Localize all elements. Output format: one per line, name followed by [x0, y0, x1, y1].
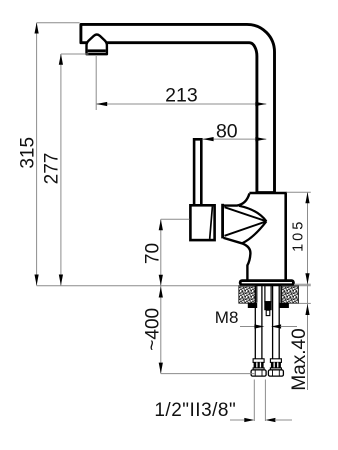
- joint bar: [221, 204, 224, 239]
- svg-text:1/2"II3/8": 1/2"II3/8": [154, 400, 236, 421]
- cone top edge: [224, 193, 250, 205]
- dim 400 ext bottom: [161, 373, 255, 375]
- countertop hatch right: [282, 286, 299, 304]
- dim 105 ext bottom: [295, 283, 311, 285]
- countertop hatch left: [239, 286, 256, 304]
- hose left: [254, 286, 256, 359]
- svg-text:105: 105: [290, 219, 306, 252]
- aerator: [87, 35, 107, 55]
- svg-text:M8: M8: [215, 308, 239, 327]
- handle body: [190, 205, 214, 240]
- base flange: [240, 281, 293, 285]
- dim 105 ext top: [286, 191, 310, 193]
- lever bar: [194, 139, 201, 205]
- handle inner slant: [210, 207, 213, 239]
- mounting nut right: [280, 303, 289, 308]
- dim 213 ext: [95, 56, 97, 110]
- dim 70 ext top: [161, 218, 190, 220]
- M8 stud: [265, 286, 271, 302]
- cone fan line lower: [225, 221, 267, 236]
- dim 315 line: [36, 23, 38, 286]
- svg-text:213: 213: [165, 85, 198, 107]
- dim 213 line: [96, 103, 266, 105]
- dim 315 ext: [37, 22, 80, 24]
- shank wall left: [256, 286, 258, 303]
- cone upper curve: [239, 206, 266, 222]
- dim 70/~400 line: [160, 219, 162, 373]
- cone fan line upper: [225, 207, 267, 221]
- body column: [247, 193, 285, 281]
- dim M8 arrows: [240, 326, 255, 328]
- hose connector left: [251, 359, 266, 376]
- aerator ring band: [88, 49, 106, 52]
- hose connector right: [268, 359, 283, 376]
- shank wall right: [280, 286, 282, 303]
- spout tube: [81, 24, 275, 192]
- countertop surface line: [37, 285, 239, 287]
- bottom centerline right: [264, 380, 266, 422]
- mounting nut left: [248, 303, 257, 308]
- svg-text:277: 277: [42, 153, 63, 185]
- countertop bottom line: [299, 302, 311, 304]
- svg-text:315: 315: [18, 137, 39, 169]
- svg-text:80: 80: [216, 120, 238, 142]
- bottom dim arrows: [230, 419, 245, 421]
- cone lower curve: [242, 221, 266, 243]
- dim 105/max40 line: [307, 192, 309, 390]
- dim 277 line: [60, 54, 62, 286]
- svg-text:Max.40: Max.40: [289, 328, 310, 390]
- svg-text:70: 70: [143, 243, 164, 264]
- dim 277 ext: [61, 53, 89, 55]
- bottom centerline left: [253, 380, 255, 422]
- hose right: [272, 286, 274, 359]
- wire: pipe centerline extension: [265, 99, 267, 191]
- dim 80 line: [203, 138, 267, 140]
- cone bottom edge: [224, 238, 251, 280]
- svg-text:~400: ~400: [143, 308, 164, 351]
